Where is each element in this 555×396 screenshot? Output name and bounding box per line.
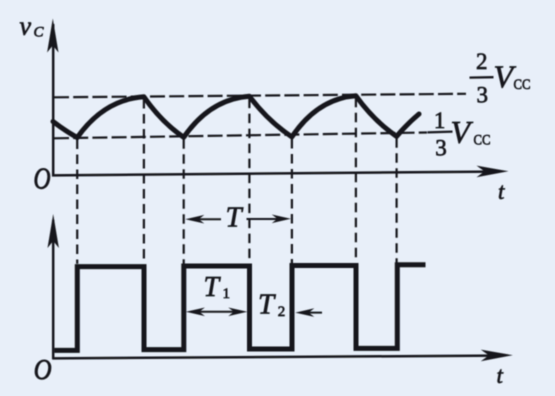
svg-text:CC: CC — [474, 132, 491, 148]
fraction 1/3 (level label) — [434, 108, 447, 160]
label Vcc (lower) — [451, 114, 491, 150]
dashed vertical at peak 2 — [248, 99, 250, 264]
svg-text:t: t — [497, 363, 504, 388]
svg-text:3: 3 — [477, 82, 489, 107]
label v_C — [20, 11, 45, 40]
dashed level 1/3 Vcc — [54, 133, 427, 139]
v-axis (top chart) — [52, 24, 55, 177]
t-axis (bottom chart) — [52, 356, 494, 359]
period T annotation: right arrow — [247, 218, 286, 220]
svg-text:1: 1 — [434, 108, 446, 133]
label O (top chart origin) — [34, 161, 51, 196]
label O (bottom chart origin) — [34, 353, 52, 385]
fraction 2/3 (level label) — [476, 49, 488, 108]
capacitor voltage waveform vC — [53, 96, 419, 138]
svg-text:T: T — [226, 201, 244, 233]
t-axis (top chart) — [52, 172, 490, 176]
dashed level 2/3 Vcc — [54, 94, 466, 98]
t-axis arrowhead (bottom) — [481, 350, 513, 362]
svg-text:2: 2 — [476, 49, 488, 74]
v-axis (bottom chart) — [52, 220, 55, 359]
svg-text:CC: CC — [514, 77, 531, 93]
svg-text:3: 3 — [435, 136, 447, 161]
svg-text:O: O — [34, 353, 52, 385]
svg-text:2: 2 — [278, 304, 286, 320]
svg-text:1: 1 — [223, 286, 231, 302]
fraction bar of 2/3 — [470, 76, 494, 79]
dashed vertical at trough 4 — [396, 138, 398, 262]
period T annotation: left arrow — [191, 218, 221, 220]
T1 double arrow — [191, 311, 242, 313]
svg-text:T: T — [204, 272, 222, 303]
dashed vertical at trough 1 — [76, 140, 78, 264]
dashed vertical at trough 3 — [291, 139, 293, 263]
dashed vertical at peak 1 — [143, 99, 145, 264]
t-axis arrowhead (top) — [477, 166, 509, 178]
svg-text:C: C — [34, 25, 45, 41]
output square wave vO — [55, 265, 426, 351]
label Vcc (upper) — [494, 59, 531, 95]
svg-text:v: v — [20, 11, 32, 40]
svg-text:t: t — [498, 179, 505, 204]
v-axis arrowhead (bottom) — [48, 214, 59, 248]
v-axis arrowhead — [47, 19, 58, 53]
dashed vertical at peak 3 — [355, 98, 357, 263]
label T1 — [204, 272, 231, 303]
fraction bar of 1/3 — [428, 130, 453, 133]
svg-text:T: T — [258, 289, 276, 321]
dashed vertical at trough 2 — [183, 139, 185, 263]
svg-text:V: V — [451, 114, 474, 150]
svg-text:O: O — [34, 161, 51, 196]
T2 arrow (points left at rising edge) — [300, 312, 322, 314]
label T2 — [258, 289, 285, 321]
